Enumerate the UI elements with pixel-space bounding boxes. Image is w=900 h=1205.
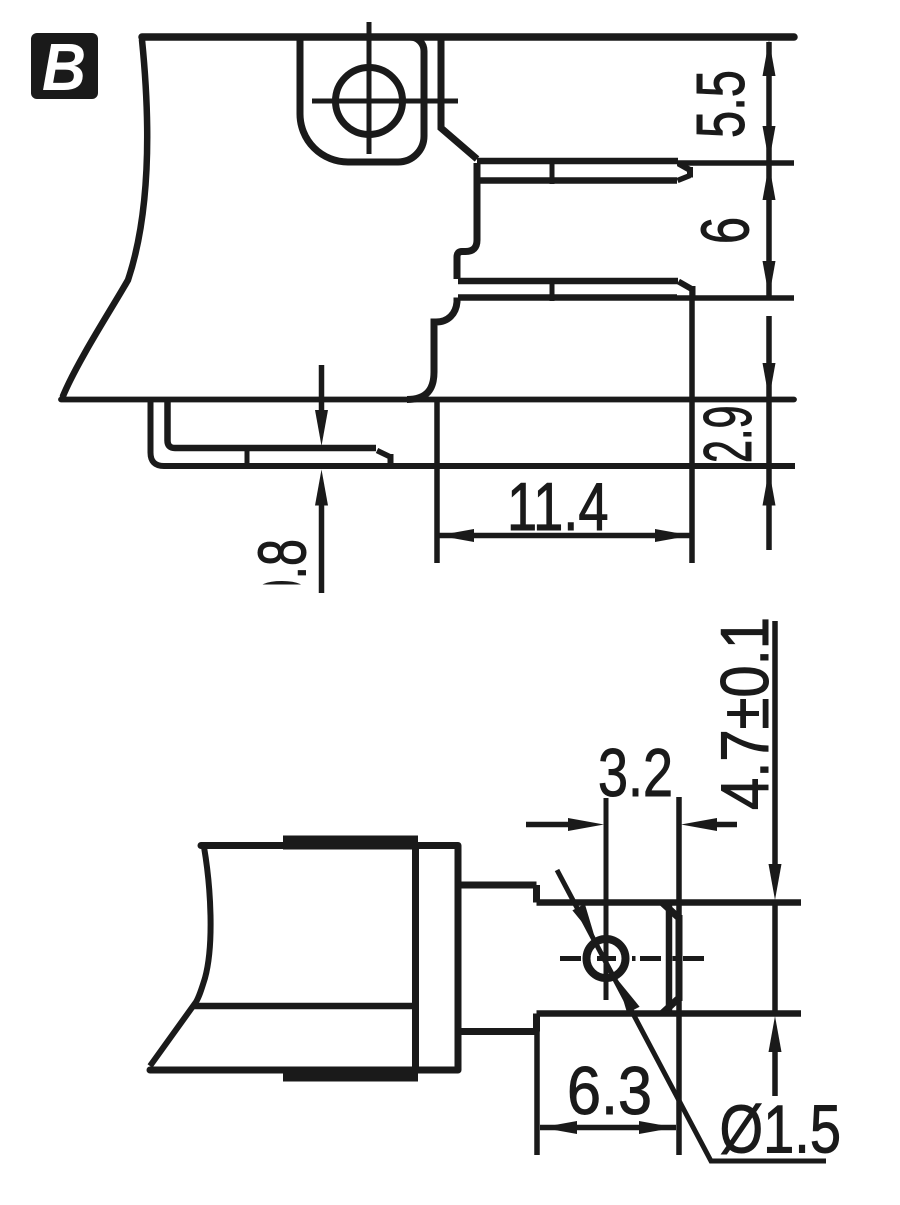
mounting ear outline — [300, 37, 424, 162]
svg-text:Ø1.5: Ø1.5 — [720, 1092, 842, 1168]
body right edge below pin 2 — [407, 298, 457, 400]
body edge behind ear — [441, 38, 477, 159]
top rim band — [283, 836, 418, 850]
bottom rim band — [283, 1068, 418, 1082]
cylinder body top edge — [201, 842, 458, 849]
body bottom edge line (extends right as extension line for dim 2.9) — [61, 397, 794, 403]
hole horizontal centerline (dash-dot) — [560, 956, 704, 961]
svg-text:B: B — [42, 30, 86, 105]
dim 11.4 extension line right — [689, 288, 695, 563]
terminal tip outline — [662, 903, 679, 1014]
svg-text:6.3: 6.3 — [567, 1053, 652, 1129]
terminal top edge (extends right as extension line for dim 4.7) — [537, 899, 802, 906]
dim 3.2 extension line right (tip edge extended) — [676, 797, 682, 1155]
dim 2.9 (vertical, outside arrows) — [766, 316, 772, 550]
bushing step verticals — [533, 885, 540, 1032]
cylinder body left break line — [150, 847, 211, 1066]
body left break line — [63, 40, 147, 396]
svg-text:3.2: 3.2 — [598, 735, 673, 811]
hole centerline horizontal — [312, 99, 458, 104]
body top edge line (extends right as extension line for dim 5.5) — [142, 33, 794, 41]
pin 2 (lower terminal) — [458, 278, 693, 301]
mounting hole — [336, 68, 403, 135]
dim 5.5 (vertical, right side) — [766, 42, 772, 161]
svg-text:6: 6 — [688, 217, 764, 244]
dim 6.3 extension line left — [534, 1020, 540, 1155]
svg-text:4.7±0.1: 4.7±0.1 — [707, 617, 783, 810]
view label badge B — [31, 30, 98, 105]
bushing bottom edge — [458, 1028, 537, 1035]
hole vertical centerline (also ext line for dims 3.2/6.3) — [604, 798, 609, 1000]
cylinder body bottom edge — [150, 1067, 458, 1074]
svg-text:11.4: 11.4 — [507, 469, 609, 545]
collar right edge — [455, 846, 462, 1071]
dim 11.4 line with outward arrows — [437, 533, 692, 539]
leader line for Ø1.5 — [557, 870, 826, 1161]
body right edge between pin 1 and pin 2 — [457, 163, 477, 279]
cylinder internal edge line — [193, 1003, 416, 1010]
hole centerline vertical — [367, 22, 372, 154]
pin 1 (upper terminal) — [477, 158, 690, 184]
dim 6.3 line with outward arrows — [540, 1125, 676, 1131]
dim 3.2 line, outside arrows pointing inward — [526, 822, 737, 828]
bushing top edge — [458, 882, 537, 889]
svg-text:5.5: 5.5 — [683, 70, 759, 138]
pin 1 top extension line (dim 5.5 / 6 boundary) — [677, 160, 794, 166]
terminal tip inner edge — [666, 906, 673, 1011]
cylinder right edge — [412, 846, 419, 1071]
terminal bottom edge (extends right as extension line for dim 4.7) — [537, 1010, 802, 1017]
dim 6 (vertical, right side) — [766, 165, 772, 296]
pin 2 bottom edge, continues right as extension line (dim 6 / gap boundary) — [458, 294, 677, 301]
svg-text:2.9: 2.9 — [690, 406, 766, 464]
dim 4.7±0.1 (vertical, outside arrows) — [772, 621, 778, 1096]
dim 11.4 extension line left — [434, 399, 440, 563]
bent lead (L-shaped) below body — [151, 401, 796, 466]
dim 0.8 (lead thickness, outside arrows) — [319, 365, 325, 593]
terminal hole — [587, 939, 626, 978]
